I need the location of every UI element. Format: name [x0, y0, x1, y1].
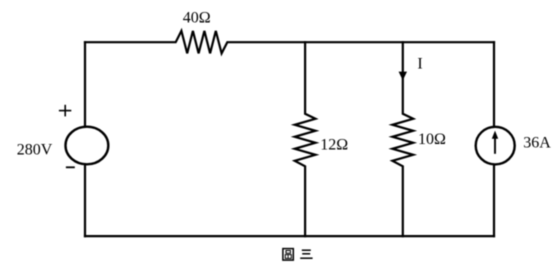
svg-text:12Ω: 12Ω: [320, 136, 348, 153]
svg-text:10Ω: 10Ω: [418, 131, 446, 148]
svg-text:I: I: [417, 56, 422, 73]
svg-text:280V: 280V: [17, 142, 53, 159]
svg-text:40Ω: 40Ω: [183, 9, 211, 26]
svg-text:36A: 36A: [523, 134, 551, 151]
